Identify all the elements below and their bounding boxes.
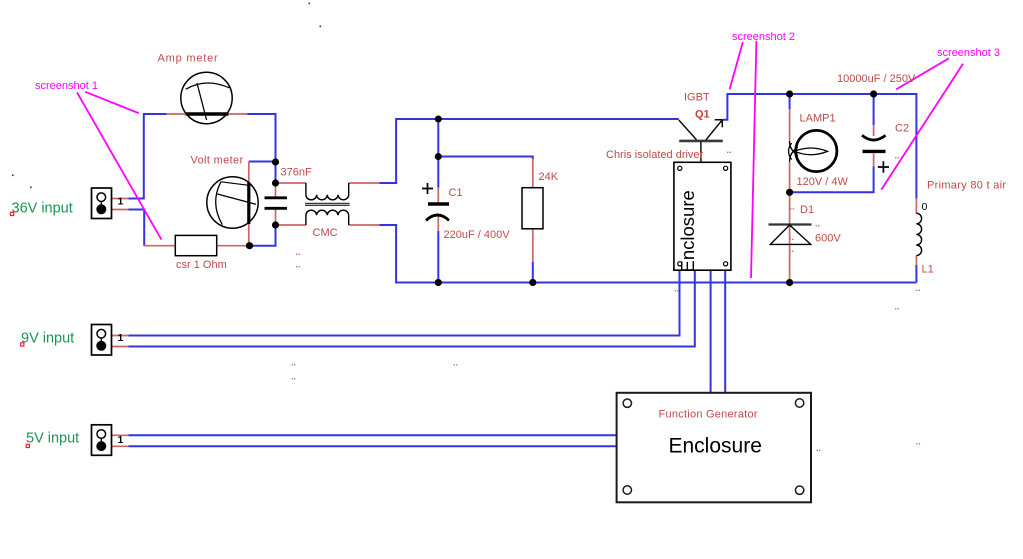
node mark dotdot 9 bbox=[790, 202, 795, 212]
pin C1 leads bbox=[437, 188, 439, 232]
node speck 4 bbox=[30, 187, 32, 189]
wire volt meter top bbox=[249, 161, 276, 163]
amp meter M1 bbox=[181, 72, 232, 123]
node mark dotdot 6 bbox=[674, 284, 679, 294]
common mode choke CMC bbox=[305, 183, 350, 225]
enclosure U1 Chris isolated driver box bbox=[674, 162, 731, 270]
wire mid tap to 24K bbox=[438, 157, 533, 160]
connector J2 9V input bbox=[92, 325, 112, 356]
GREEN INPUT LABELS bbox=[12, 201, 80, 447]
label D1 bbox=[800, 204, 814, 216]
label 220uF / 400V bbox=[444, 229, 511, 241]
wire screenshot3 pointer line a bbox=[896, 58, 949, 89]
label Q1 bbox=[695, 109, 710, 121]
BLACK SPECKS bbox=[12, 3, 321, 189]
label 36V input bbox=[12, 201, 73, 217]
RED ORIGIN SQUARES bbox=[11, 212, 30, 447]
svg-text:9V input: 9V input bbox=[21, 331, 74, 347]
pin 36V input stubs bbox=[112, 199, 129, 210]
label 0 at L1 bbox=[922, 201, 928, 213]
label 9V input bbox=[21, 331, 74, 347]
capacitor C1 electrolytic bbox=[422, 183, 449, 221]
label Volt meter bbox=[191, 155, 244, 167]
label 24K bbox=[539, 171, 559, 183]
node mark dotdot 11 bbox=[789, 232, 794, 242]
label Primary 80 t air bbox=[927, 180, 1006, 192]
node C1 bottom bus junction bbox=[435, 279, 442, 286]
svg-text:..: .. bbox=[790, 202, 795, 212]
node speck 2 bbox=[320, 26, 322, 28]
svg-text:Enclosure: Enclosure bbox=[677, 190, 698, 272]
svg-text:0: 0 bbox=[922, 201, 928, 213]
svg-text:L1: L1 bbox=[922, 264, 934, 276]
node mark dotdot 7 bbox=[727, 145, 732, 155]
node mark dotdot 15 bbox=[816, 443, 821, 453]
wire 5V plus to function generator bbox=[129, 434, 617, 436]
pin amp meter leads bbox=[167, 113, 248, 115]
wire C2 branch bbox=[790, 94, 874, 192]
svg-text:CMC: CMC bbox=[313, 227, 338, 239]
svg-text:376nF: 376nF bbox=[281, 167, 312, 179]
lamp LAMP1 bbox=[789, 130, 837, 171]
pin 24K leads bbox=[532, 159, 534, 263]
node origin marker 36V bbox=[11, 212, 14, 215]
wire L1 bottom to bus bbox=[915, 265, 917, 283]
label screenshot 1 bbox=[35, 80, 98, 92]
svg-text:1: 1 bbox=[118, 434, 124, 446]
label CMC bbox=[313, 227, 338, 239]
pin csr leads bbox=[144, 245, 249, 247]
inductor L1 bbox=[916, 213, 921, 255]
STRAY DOT MARKS bbox=[291, 145, 921, 453]
node mark dotdot 5 bbox=[453, 358, 458, 368]
svg-text:..: .. bbox=[895, 302, 900, 312]
PIN-LEADS-RED bbox=[112, 109, 917, 446]
node mark dotdot 8 bbox=[895, 151, 900, 161]
node origin marker 5V bbox=[26, 444, 29, 447]
node origin marker 9V bbox=[21, 343, 24, 346]
pin 376nF leads bbox=[275, 183, 277, 225]
pin 9V input stubs bbox=[112, 336, 129, 347]
svg-text:24K: 24K bbox=[539, 171, 559, 183]
label Amp meter bbox=[158, 53, 219, 65]
volt meter M2 bbox=[207, 177, 258, 228]
label Chris isolated driver bbox=[606, 149, 704, 161]
wire enclosure pin2 to 9V minus bbox=[129, 270, 695, 346]
node speck 3 bbox=[12, 175, 14, 177]
svg-text:220uF / 400V: 220uF / 400V bbox=[444, 229, 511, 241]
wire screenshot1 pointer line a bbox=[85, 92, 139, 113]
node mark dotdot 16 bbox=[916, 437, 921, 447]
svg-text:600V: 600V bbox=[815, 233, 841, 245]
wire IGBT collector to right bus bbox=[723, 94, 917, 199]
label LAMP1 bbox=[800, 113, 836, 125]
label csr 1 Ohm bbox=[176, 259, 227, 271]
label 5V input bbox=[26, 431, 79, 447]
node 376nF top junction bbox=[272, 179, 279, 186]
wire amp meter right side down to node A bbox=[248, 114, 276, 183]
node mid tap junction bbox=[435, 153, 442, 160]
node 376nF bottom junction bbox=[272, 221, 279, 228]
svg-text:120V / 4W: 120V / 4W bbox=[797, 176, 849, 188]
pin D1 lead bbox=[789, 192, 791, 282]
connector J1 36V input bbox=[92, 188, 112, 219]
svg-text:10000uF / 250V: 10000uF / 250V bbox=[837, 73, 916, 85]
svg-text:screenshot 1: screenshot 1 bbox=[35, 80, 98, 92]
svg-text:csr 1 Ohm: csr 1 Ohm bbox=[176, 259, 227, 271]
label pin1 5V bbox=[118, 434, 124, 446]
wire C1 branch vertical bbox=[437, 119, 439, 283]
node D1 bottom bus junction bbox=[786, 279, 793, 286]
pin C2 leads bbox=[873, 125, 875, 166]
label 10000uF / 250V bbox=[837, 73, 916, 85]
svg-text:screenshot 2: screenshot 2 bbox=[732, 31, 795, 43]
label screenshot 3 bbox=[937, 47, 1000, 59]
JUNCTION DOTS bbox=[246, 90, 877, 286]
connector J3 5V input bbox=[92, 425, 112, 456]
pin volt meter leads bbox=[248, 162, 250, 246]
svg-text:Volt meter: Volt meter bbox=[191, 155, 244, 167]
label L1 bbox=[922, 264, 934, 276]
wire 36V minus down to csr bbox=[129, 210, 145, 246]
label pin1 9V bbox=[118, 332, 124, 344]
svg-text:Chris isolated driver: Chris isolated driver bbox=[606, 149, 704, 161]
wire screenshot2 pointer line a bbox=[730, 42, 743, 90]
svg-text:Enclosure: Enclosure bbox=[669, 435, 762, 458]
node mark dotdot 14 bbox=[895, 302, 900, 312]
svg-text:36V input: 36V input bbox=[12, 201, 73, 217]
svg-text:..: .. bbox=[895, 151, 900, 161]
pin lamp leads bbox=[789, 109, 791, 192]
resistor csr 1 Ohm bbox=[175, 235, 216, 255]
label C1 bbox=[449, 187, 463, 199]
node lamp top bus junction bbox=[786, 90, 793, 97]
label IGBT bbox=[684, 92, 710, 104]
node speck 1 bbox=[309, 3, 311, 5]
wire 24K bottom to bus bbox=[532, 262, 534, 283]
node mark dotdot 2 bbox=[296, 260, 301, 270]
node 24K bottom bus junction bbox=[529, 279, 536, 286]
label pin1 36V bbox=[118, 196, 124, 208]
label screenshot 2 bbox=[732, 31, 795, 43]
label Enclosure function generator bbox=[669, 435, 762, 458]
pin L1 leads bbox=[915, 199, 917, 265]
PIN NUMBER LABELS bbox=[118, 196, 124, 447]
svg-text:..: .. bbox=[296, 260, 301, 270]
MAGENTA TEXT bbox=[35, 31, 1000, 92]
svg-text:Primary 80 t air: Primary 80 t air bbox=[927, 180, 1006, 192]
node mark dotdot 13 bbox=[916, 283, 921, 293]
wire csr junction to 376nF bottom node bbox=[250, 225, 276, 246]
svg-text:..: .. bbox=[296, 247, 301, 257]
svg-text:C2: C2 bbox=[895, 123, 909, 135]
node volt meter top junction bbox=[272, 158, 279, 165]
svg-text:5V input: 5V input bbox=[26, 431, 79, 447]
capacitor 376nF bbox=[265, 198, 288, 209]
pin 5V input stubs bbox=[112, 435, 129, 446]
node mark dotdot 10 bbox=[815, 219, 820, 229]
svg-text:Amp meter: Amp meter bbox=[158, 53, 219, 65]
svg-text:..: .. bbox=[916, 437, 921, 447]
diode D1 bbox=[769, 225, 812, 245]
label C2 bbox=[895, 123, 909, 135]
wire screenshot2 pointer line b bbox=[751, 41, 756, 278]
wire screenshot3 pointer line b bbox=[881, 64, 963, 190]
wire CMC bottom output to bottom bus bbox=[380, 225, 917, 283]
resistor 24K bbox=[522, 188, 543, 229]
svg-text:screenshot 3: screenshot 3 bbox=[937, 47, 1000, 59]
node D1 top junction bbox=[786, 189, 793, 196]
label 120V / 4W bbox=[797, 176, 849, 188]
svg-text:..: .. bbox=[291, 358, 296, 368]
node mark dotdot 4 bbox=[291, 372, 296, 382]
node csr junction bbox=[246, 242, 253, 249]
wire 36V plus loop up to amp meter bbox=[129, 114, 167, 199]
label 376nF bbox=[281, 167, 312, 179]
wire 5V minus to function generator bbox=[129, 445, 617, 447]
svg-text:C1: C1 bbox=[449, 187, 463, 199]
svg-text:..: .. bbox=[916, 283, 921, 293]
node mark dotdot 12 bbox=[789, 244, 794, 254]
svg-text:Function Generator: Function Generator bbox=[659, 409, 758, 421]
wire enclosure pin3 to function generator bbox=[710, 270, 712, 393]
wire CMC top output to top bus bbox=[380, 119, 679, 183]
svg-text:Q1: Q1 bbox=[695, 109, 710, 121]
label 600V bbox=[815, 233, 841, 245]
svg-text:..: .. bbox=[674, 284, 679, 294]
enclosure U2 function generator box bbox=[617, 393, 811, 503]
pin CMC leads bbox=[276, 183, 380, 225]
MAGENTA ANNOTATION bbox=[77, 41, 963, 278]
wire lamp top bbox=[789, 94, 791, 109]
WIRES-BLUE bbox=[129, 94, 917, 446]
node mark dotdot 3 bbox=[291, 358, 296, 368]
svg-text:..: .. bbox=[816, 443, 821, 453]
svg-text:..: .. bbox=[291, 372, 296, 382]
node C1 top bus junction bbox=[435, 116, 442, 123]
enclosure U1 vertical text bbox=[677, 190, 698, 272]
svg-text:1: 1 bbox=[118, 332, 124, 344]
wire screenshot1 pointer line b bbox=[77, 92, 161, 239]
svg-text:..: .. bbox=[727, 145, 732, 155]
svg-text:D1: D1 bbox=[800, 204, 814, 216]
svg-text:LAMP1: LAMP1 bbox=[800, 113, 836, 125]
svg-text:..: .. bbox=[453, 358, 458, 368]
svg-text:IGBT: IGBT bbox=[684, 92, 710, 104]
wire enclosure pin1 to 9V plus bbox=[129, 270, 680, 335]
node mark dotdot 1 bbox=[296, 247, 301, 257]
svg-text:1: 1 bbox=[118, 196, 124, 208]
capacitor C2 electrolytic bbox=[862, 135, 889, 172]
label Function Generator bbox=[659, 409, 758, 421]
transistor Q1 IGBT bbox=[679, 120, 723, 163]
svg-text:..: .. bbox=[789, 232, 794, 242]
svg-text:..: .. bbox=[815, 219, 820, 229]
node C2 top bus junction bbox=[870, 90, 877, 97]
wire enclosure pin4 to function generator bbox=[724, 270, 726, 393]
svg-text:..: .. bbox=[789, 244, 794, 254]
